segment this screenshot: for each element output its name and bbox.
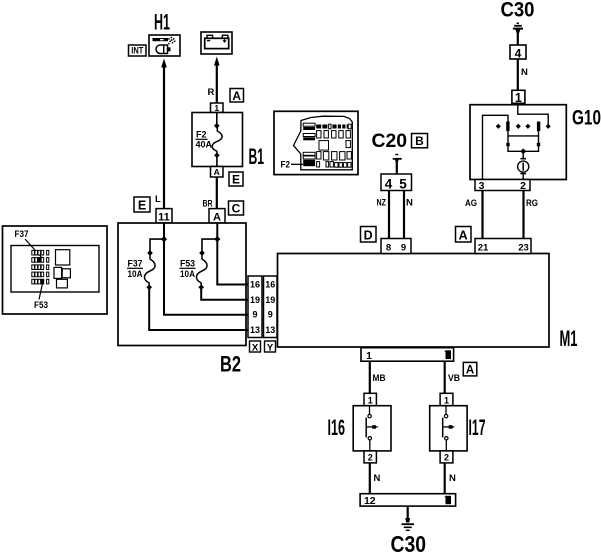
inset: fusebox location diagram for F37/F53 <box>3 226 108 314</box>
wire RG : G10 pin 2 to M1 pin 23 <box>522 191 524 239</box>
wire MB : M1 to I16 <box>369 361 371 393</box>
pin 11 of B2 <box>156 209 172 224</box>
pin 1 of G10 <box>512 90 525 105</box>
svg-text:4: 4 <box>515 46 522 60</box>
connector label Y (boxed) <box>265 341 276 353</box>
svg-text:A: A <box>214 167 220 177</box>
label I16 <box>328 415 346 440</box>
label H1 <box>154 10 170 35</box>
svg-text:E: E <box>232 173 240 187</box>
svg-text:N: N <box>521 67 528 78</box>
inset relay squares <box>54 250 70 288</box>
connector column Y (pins 16,19,9,13) <box>264 276 278 338</box>
wire label BR <box>203 199 213 210</box>
label B2 <box>220 352 241 377</box>
svg-text:10A: 10A <box>128 269 143 279</box>
svg-text:N: N <box>374 473 381 484</box>
G10 internal connector pin row <box>496 122 551 132</box>
svg-text:1: 1 <box>444 395 449 405</box>
svg-text:16: 16 <box>265 280 275 290</box>
svg-text:AG: AG <box>465 198 477 209</box>
junction (pin 11 branch) <box>161 236 167 242</box>
inset label F37 with leader line <box>15 229 44 260</box>
junction (pin A branch) <box>214 236 220 242</box>
svg-text:N: N <box>406 198 413 209</box>
svg-text:10A: 10A <box>180 269 195 279</box>
wire label R <box>208 87 215 98</box>
fuse value label F53/10A <box>180 259 196 279</box>
svg-text:F53: F53 <box>180 259 195 269</box>
svg-text:B: B <box>415 134 424 148</box>
wire BR : B1 pin A to B2 pin A <box>216 177 218 209</box>
wire: pin 11 to junction, then to pin 9 of X/Y connector <box>164 223 248 315</box>
inset F2 fuse contents <box>303 123 351 167</box>
fuse F53 10A <box>196 250 207 290</box>
label G10 <box>572 106 601 129</box>
svg-text:A: A <box>466 365 474 377</box>
svg-text:I17: I17 <box>469 415 486 440</box>
connector label B (boxed) <box>412 134 428 149</box>
svg-text:Y: Y <box>267 342 274 353</box>
wire: pin A to junction, then to pin 16 of X/Y connector <box>217 223 248 285</box>
svg-text:I16: I16 <box>328 415 346 440</box>
svg-text:A: A <box>459 228 468 242</box>
wire AG : G10 pin 3 to M1 pin 21 <box>481 191 483 239</box>
svg-text:23: 23 <box>518 243 529 254</box>
wire N : C20 pin 5 to M1 pin 9 <box>403 191 405 239</box>
svg-text:12: 12 <box>364 495 376 507</box>
wire NZ : C20 pin 4 to M1 pin 8 <box>388 191 390 239</box>
wire N : pin 4 to G10 pin 1 <box>517 59 519 90</box>
wire L : B2 pin 11 up to lamp H1, arrow <box>161 59 167 209</box>
wire: F53 to pin 19 of X/Y connector <box>201 289 248 300</box>
wire label L <box>155 194 161 205</box>
wire label MB <box>373 373 386 384</box>
svg-text:RG: RG <box>526 198 538 209</box>
connector C20 (pins 4,5) <box>381 174 412 192</box>
switch I16 <box>353 406 391 451</box>
wire label N (G10 feed) <box>521 67 528 78</box>
inset label F2 with leader line <box>281 160 304 170</box>
svg-text:M1: M1 <box>560 326 578 351</box>
pin 1 of I16 <box>364 393 376 405</box>
label INT <box>129 45 147 56</box>
wire: F37 to pin 13 of X/Y connector <box>149 289 248 330</box>
svg-text:F53: F53 <box>34 300 48 310</box>
fuse F2 40A <box>212 113 222 167</box>
svg-text:B2: B2 <box>220 352 241 377</box>
connector label E (boxed, at B1 pin A) <box>229 172 243 187</box>
control unit M1 <box>278 254 550 348</box>
ground C30 top (inverted earth symbol) <box>513 23 523 45</box>
label C20 <box>372 131 408 152</box>
svg-text:8: 8 <box>386 243 391 254</box>
pin A of B2 <box>209 209 225 224</box>
svg-text:2: 2 <box>444 453 449 463</box>
pin 1 of B1 <box>211 103 224 113</box>
svg-text:13: 13 <box>250 325 260 335</box>
svg-text:INT: INT <box>131 46 143 56</box>
connector A of M1 (pins 21,23) <box>475 239 531 254</box>
svg-text:19: 19 <box>265 295 275 305</box>
G10 internal junction and bulb <box>518 148 529 179</box>
svg-text:9: 9 <box>401 243 406 254</box>
pin 2 of I16 <box>364 451 376 463</box>
svg-text:H1: H1 <box>154 10 170 35</box>
svg-text:1: 1 <box>366 350 372 362</box>
svg-text:D: D <box>364 228 373 242</box>
label C30 (bottom) <box>391 531 427 554</box>
pin A of B1 <box>211 167 224 178</box>
wire N : I16 to ground connector <box>369 463 371 494</box>
wire: junction to fuse F37 <box>150 239 164 252</box>
connector label C (boxed, at B2 pin A) <box>229 201 244 216</box>
body computer B2 <box>118 223 246 346</box>
label B1 <box>249 144 265 169</box>
label C30 (top) <box>501 0 535 22</box>
connector label A (boxed, at M1 pins 21/23) <box>456 227 472 243</box>
svg-text:X: X <box>252 342 259 353</box>
pin 1 of I17 <box>440 393 453 405</box>
G10 internal wire to pin 3 <box>483 115 509 179</box>
svg-text:L: L <box>155 194 161 205</box>
svg-text:2: 2 <box>520 180 526 192</box>
connector label X (boxed) <box>250 341 261 353</box>
svg-text:VB: VB <box>448 373 460 384</box>
svg-text:13: 13 <box>265 325 275 335</box>
ground connector bar (pins 12,1) <box>360 494 456 507</box>
svg-text:1: 1 <box>515 91 522 105</box>
wire VB : M1 to I17 <box>444 361 446 393</box>
svg-text:11: 11 <box>158 211 170 223</box>
fusebox B1 <box>192 113 243 167</box>
fuse value label F37/10A <box>127 259 143 279</box>
svg-text:A: A <box>232 89 241 103</box>
svg-text:4: 4 <box>385 177 393 192</box>
svg-text:A: A <box>213 211 221 223</box>
inset fuse grid <box>32 250 49 284</box>
svg-text:MB: MB <box>373 373 386 384</box>
ground C20 (inverted earth symbol) <box>393 155 402 175</box>
connector D of M1 (pins 8,9) <box>381 239 411 254</box>
svg-text:N: N <box>449 473 456 484</box>
svg-text:F37: F37 <box>15 229 29 239</box>
svg-text:R: R <box>208 87 215 98</box>
svg-text:19: 19 <box>250 295 260 305</box>
svg-text:3: 3 <box>479 180 485 192</box>
svg-text:C20: C20 <box>372 131 408 152</box>
wire R : battery down to B1 pin 1, arrow <box>214 57 220 104</box>
pin 4 (C30 connector) <box>510 45 526 60</box>
connector label D (boxed) <box>361 227 377 243</box>
wire: junction to fuse F53 <box>202 239 217 252</box>
svg-text:5: 5 <box>399 177 407 192</box>
inset: fusebox location diagram for F2 <box>274 111 358 174</box>
label M1 <box>560 326 578 351</box>
svg-text:C30: C30 <box>501 0 535 22</box>
svg-text:NZ: NZ <box>377 198 387 209</box>
wire label NZ <box>377 198 387 209</box>
wire label N (I16) <box>374 473 381 484</box>
switch I17 <box>430 406 467 451</box>
connector label A (boxed, at M1 bottom) <box>463 362 477 376</box>
wire label N (I17) <box>449 473 456 484</box>
connector of G10 (pins 3,2) <box>475 180 530 193</box>
svg-text:F2: F2 <box>281 160 291 170</box>
label I17 <box>469 415 486 440</box>
svg-text:G10: G10 <box>572 106 601 129</box>
svg-text:1: 1 <box>214 103 219 113</box>
connector column X (pins 16,19,9,13) <box>248 276 262 338</box>
svg-text:9: 9 <box>252 310 257 320</box>
connector of M1 bottom (pins 1,1) <box>361 348 454 362</box>
svg-text:40A: 40A <box>196 140 213 150</box>
battery <box>201 32 232 54</box>
wire label N <box>406 198 413 209</box>
ground C30 (bottom earth symbol) <box>402 506 415 530</box>
svg-text:1: 1 <box>368 395 373 405</box>
wire label AG <box>465 198 477 209</box>
connector label A (boxed, at B1 pin 1) <box>230 89 244 103</box>
connector label E (boxed, at B2 pin 11) <box>134 197 150 212</box>
pin 2 of I17 <box>440 451 453 463</box>
svg-text:B1: B1 <box>249 144 265 169</box>
svg-text:16: 16 <box>250 280 260 290</box>
wire label RG <box>526 198 538 209</box>
instrument module G10 <box>470 105 566 180</box>
G10 internal wire from pin 1 <box>518 103 548 124</box>
fuse value label F2/40A <box>196 130 213 150</box>
fuse F37 10A <box>144 250 155 290</box>
inset label F53 with leader line <box>34 284 48 311</box>
lamp H1 (interior light) <box>149 35 180 56</box>
svg-text:C: C <box>232 202 241 216</box>
wire N : I17 to ground connector <box>444 463 446 494</box>
svg-text:F2: F2 <box>196 130 207 140</box>
svg-text:C30: C30 <box>391 531 427 554</box>
svg-text:2: 2 <box>368 453 373 463</box>
svg-text:21: 21 <box>478 243 489 254</box>
wire label VB <box>448 373 460 384</box>
svg-text:9: 9 <box>268 310 273 320</box>
svg-text:F37: F37 <box>128 259 143 269</box>
svg-text:E: E <box>138 198 146 212</box>
G10 internal component box <box>506 131 540 151</box>
